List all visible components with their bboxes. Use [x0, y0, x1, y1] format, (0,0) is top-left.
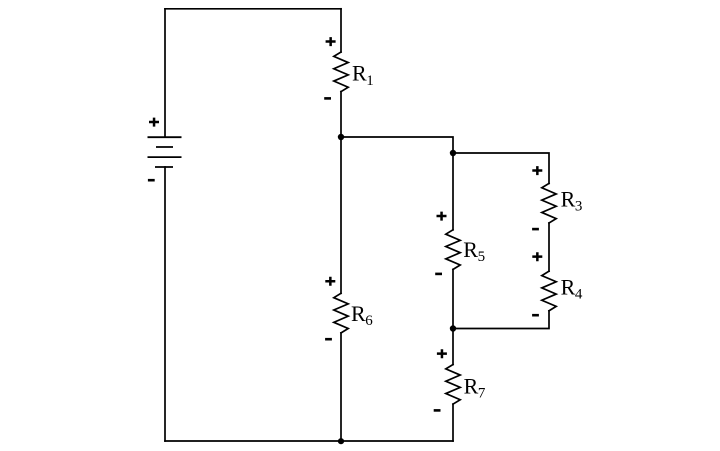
R6 - polarity	[325, 338, 332, 341]
resistor R5	[446, 230, 460, 270]
svg-text:R: R	[352, 61, 367, 86]
label R7	[464, 373, 486, 401]
svg-text:7: 7	[478, 386, 486, 402]
resistor R1	[334, 52, 348, 92]
wire R7 bottom to bottom rail	[452, 404, 454, 441]
R5 - polarity	[435, 273, 442, 276]
node B junction dot	[450, 150, 456, 156]
battery - polarity	[148, 179, 155, 182]
battery + polarity	[149, 118, 159, 127]
label R5	[463, 237, 485, 265]
label R1	[352, 61, 374, 89]
R7 + polarity	[437, 349, 447, 358]
svg-text:R: R	[561, 275, 576, 300]
R7 - polarity	[434, 409, 441, 412]
wire R4 bottom left to node C	[453, 311, 549, 329]
resistor R4	[542, 271, 556, 311]
svg-text:1: 1	[366, 73, 374, 89]
label R4	[561, 275, 583, 303]
R1 + polarity	[326, 37, 336, 46]
label R6	[351, 301, 373, 329]
svg-text:R: R	[351, 301, 366, 326]
wire node B down to R5	[452, 153, 454, 230]
svg-text:R: R	[464, 373, 479, 398]
R6 + polarity	[325, 277, 335, 286]
svg-text:6: 6	[365, 313, 373, 329]
resistor R7	[446, 365, 460, 405]
wire R3 bottom to R4 top	[548, 223, 550, 271]
svg-text:5: 5	[478, 249, 486, 265]
node D junction dot on bottom rail	[338, 438, 344, 444]
svg-text:4: 4	[575, 287, 583, 303]
R1 - polarity	[324, 97, 331, 100]
wire R1 top stub	[340, 9, 342, 52]
R4 + polarity	[532, 252, 542, 261]
wire node C down to R7	[452, 329, 454, 365]
svg-text:R: R	[561, 187, 576, 212]
wire R1 bottom to node A	[340, 92, 342, 137]
wire node B right then down to R3	[453, 153, 549, 183]
node A junction dot	[338, 134, 344, 140]
wire R5 bottom to node C	[452, 269, 454, 328]
resistor R3	[542, 183, 556, 223]
wire R6 bottom to bottom rail	[340, 333, 342, 441]
wire left rail lower (battery - to bottom rail)	[164, 167, 166, 441]
wire bottom rail	[165, 440, 453, 442]
wire node A right then down to node B	[341, 137, 453, 153]
wire left rail upper (battery + to top rail)	[164, 9, 166, 137]
R3 + polarity	[532, 166, 542, 175]
wire top rail from battery to R1 branch	[165, 8, 341, 10]
svg-text:3: 3	[575, 199, 583, 215]
R5 + polarity	[437, 212, 447, 221]
node C junction dot	[450, 325, 456, 331]
battery V1 plates	[148, 137, 182, 167]
svg-text:R: R	[463, 237, 478, 262]
wire node A down to R6	[340, 137, 342, 293]
R3 - polarity	[532, 228, 539, 231]
resistor R6	[334, 293, 348, 333]
R4 - polarity	[532, 314, 539, 317]
label R3	[561, 187, 583, 215]
